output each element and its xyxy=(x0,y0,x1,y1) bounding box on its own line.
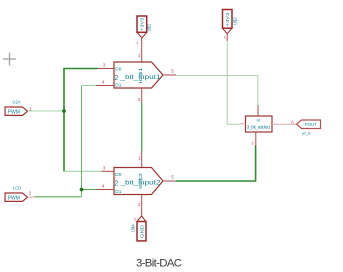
pin 2 stub (IC1 bottom) xyxy=(141,88,143,103)
wire IC1 pin2 to IC2 pin1 xyxy=(141,103,143,152)
wire to IC1 pin3 xyxy=(63,68,97,70)
wire supply to IC1 pin1 xyxy=(141,38,143,62)
wire PWM2 flag to node B column xyxy=(35,196,82,198)
svg-text:LCD: LCD xyxy=(13,186,21,191)
pin 2 stub + wire to GND flag (IC2 bottom) xyxy=(141,195,143,217)
junction node A xyxy=(62,109,66,113)
svg-text:3_bit_adder1: 3_bit_adder1 xyxy=(247,124,271,129)
svg-text:D1: D1 xyxy=(115,189,121,195)
svg-text:D0: D0 xyxy=(115,172,121,178)
svg-text:2: 2 xyxy=(114,179,118,188)
U3 3_bit_adder (summing block) xyxy=(246,116,273,132)
pin 4 stub (IC1) xyxy=(97,85,115,87)
svg-text:2: 2 xyxy=(252,142,254,146)
pin stub adder left xyxy=(240,123,246,125)
svg-text:D1: D1 xyxy=(115,83,121,89)
svg-text:U2A: U2A xyxy=(12,100,20,105)
supply flag +3V3 (top right) xyxy=(223,10,233,34)
wire to IC1 pin4 xyxy=(82,85,97,87)
svg-text:+3V3: +3V3 xyxy=(225,12,230,27)
wire top-right supply to adder left pin xyxy=(227,41,240,124)
pin stub (top-right supply) xyxy=(226,34,228,41)
pin line adder right to POUT flag xyxy=(272,123,297,125)
svg-text:U$2: U$2 xyxy=(233,17,238,25)
svg-text:A: A xyxy=(291,119,294,124)
pin stub adder top xyxy=(257,105,259,116)
net flag PWM2 (left lower port) xyxy=(5,193,28,202)
wire PWM1 flag to node A xyxy=(28,110,65,112)
svg-text:U$1: U$1 xyxy=(147,23,152,31)
IC2 2_bit_input (lower DAC block) xyxy=(114,168,163,196)
net flag PWM1 (left upper port) xyxy=(5,107,28,116)
wire IC2 output to adder bottom pin xyxy=(176,146,256,182)
origin cross marker xyxy=(3,53,16,66)
svg-text:U$4: U$4 xyxy=(130,224,135,232)
svg-text:+3V3: +3V3 xyxy=(140,17,145,31)
pin 4 stub (IC2) xyxy=(97,189,115,191)
svg-text:GND: GND xyxy=(139,224,144,238)
pin 5 stub (IC1 output) xyxy=(163,74,176,76)
wire IC1 output to adder top pin xyxy=(176,76,258,106)
pin stub PWM2 flag xyxy=(28,196,35,198)
svg-text:PWM: PWM xyxy=(8,110,20,116)
svg-text:PWM: PWM xyxy=(8,196,20,202)
IC1 2_bit_input (upper DAC block) xyxy=(114,62,163,89)
supply flag GND (bottom) xyxy=(137,216,146,241)
svg-text:µC_A: µC_A xyxy=(302,131,311,135)
svg-text:A1: A1 xyxy=(256,119,260,123)
pin 3 stub (IC1) xyxy=(98,68,115,70)
junction node B xyxy=(80,188,84,192)
net flag POUT (right port) xyxy=(297,120,321,129)
svg-text:2: 2 xyxy=(114,73,118,82)
pin 5 stub (IC2 output) xyxy=(163,180,176,182)
svg-text:IC$1: IC$1 xyxy=(138,67,143,84)
wire to IC2 pin3 xyxy=(63,170,101,172)
pin stub adder bottom xyxy=(255,132,257,146)
pin 1 stub (IC2 top) xyxy=(141,152,143,168)
wire vertical bus (node A column) xyxy=(63,69,65,172)
wire vertical (node B column) xyxy=(81,86,83,197)
svg-text:3-Bit-DAC: 3-Bit-DAC xyxy=(136,258,182,270)
supply flag +3V3 (top, above IC1) xyxy=(137,16,147,38)
pin 3 stub (IC2) xyxy=(102,170,115,172)
svg-text:IC$2: IC$2 xyxy=(138,172,143,189)
wire to IC2 pin4 xyxy=(82,189,97,191)
svg-text:POUT: POUT xyxy=(305,122,317,127)
svg-text:D0: D0 xyxy=(115,66,121,72)
